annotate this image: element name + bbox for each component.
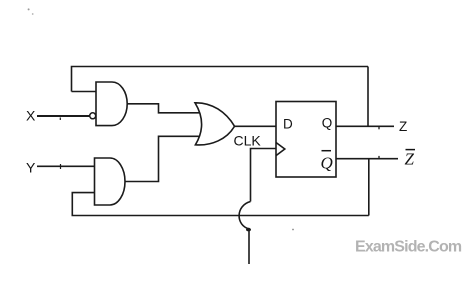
node Y input tick (60, 164, 62, 169)
svg-text:X: X (26, 108, 36, 124)
d-flip-flop U1 body (276, 102, 336, 178)
wire G1 output to OR upper input (127, 104, 200, 113)
svg-text:Y: Y (26, 160, 36, 176)
wire Qbar output to Zbar (336, 158, 398, 160)
wire G3 output to D input (235, 125, 277, 127)
svg-text:Q: Q (322, 116, 333, 131)
overbar of Qbar pin (322, 150, 332, 152)
or-gate G3 (195, 103, 235, 145)
wire G2 output to OR lower input (125, 136, 200, 181)
overbar of Zbar output (406, 149, 416, 151)
inverter bubble on X input of G1 (90, 113, 96, 119)
wire Q output to Z (336, 125, 394, 127)
svg-text:CLK: CLK (234, 132, 262, 148)
stray speck near bottom rail (292, 229, 294, 231)
svg-text:Z: Z (399, 119, 407, 134)
wire top AND upper input (72, 91, 97, 93)
wire feedback from Q down to Z net (367, 67, 369, 127)
node tick on Zbar net (378, 156, 380, 159)
and-gate G2 (95, 158, 126, 205)
wire bottom feedback rail (72, 193, 369, 216)
stray speck top-left a (28, 8, 30, 10)
wire top feedback rail (72, 67, 369, 92)
and-gate G1 (96, 82, 127, 126)
svg-text:ExamSide.Com: ExamSide.Com (355, 239, 462, 256)
node tick on Z net (378, 127, 380, 130)
node X input tick (59, 118, 61, 121)
node junction dot at CLK hop (246, 228, 251, 232)
wire feedback from Qbar down to bottom rail (368, 159, 370, 216)
wire CLK lower stub (248, 230, 250, 264)
wire Y input (37, 165, 95, 167)
wire X input (37, 115, 89, 117)
wire CLK hop over bottom rail (239, 202, 250, 230)
svg-text:D: D (283, 116, 293, 131)
stray speck top-left b (32, 13, 34, 15)
svg-text:Z: Z (405, 150, 415, 169)
wire CLK to U1 (251, 149, 277, 202)
svg-text:Q: Q (321, 154, 333, 173)
clock edge triangle on U1 (276, 143, 285, 156)
